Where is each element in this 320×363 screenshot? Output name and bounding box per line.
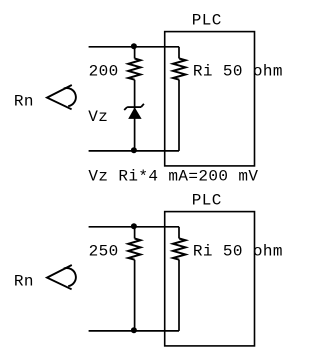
svg-text:Rn: Rn	[14, 93, 34, 111]
svg-text:Vz Ri*4 mA=200 mV: Vz Ri*4 mA=200 mV	[88, 168, 258, 187]
svg-text:200: 200	[89, 63, 119, 81]
svg-text:250: 250	[89, 243, 119, 261]
svg-text:Rn: Rn	[14, 273, 34, 291]
svg-text:Ri 50 ohm: Ri 50 ohm	[193, 243, 283, 261]
svg-text:PLC: PLC	[192, 192, 222, 210]
svg-text:PLC: PLC	[192, 12, 222, 30]
svg-text:Vz: Vz	[88, 108, 108, 126]
svg-text:Ri 50 ohm: Ri 50 ohm	[193, 63, 283, 81]
